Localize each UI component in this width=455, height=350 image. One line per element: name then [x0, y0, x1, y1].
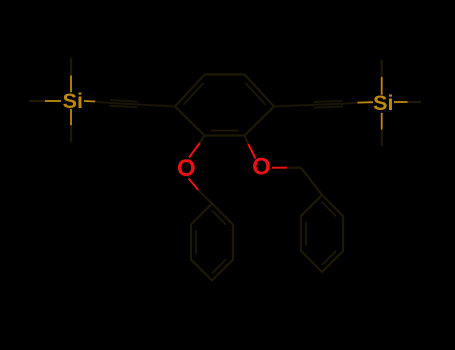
Si U2 right trimethylsilyl: [346, 60, 421, 146]
svg-text:Si: Si: [373, 91, 393, 115]
bond Si1-CH3 left: [45, 100, 61, 102]
svg-text:O: O: [252, 153, 271, 180]
phenyl ring left: [191, 204, 233, 281]
alkyne left triple bond C1#C2: [106, 100, 175, 107]
bond O2-CH2 right (red half): [272, 167, 287, 169]
O1 left oxygen: [177, 136, 212, 204]
bond O2-ring upper (red half): [248, 144, 255, 159]
Si U1 left trimethylsilyl: [29, 58, 106, 142]
bond Si2-CH3 right: [394, 101, 408, 103]
bond O1-ring upper (red half): [189, 143, 200, 158]
bond CH2-phenyl right: [301, 168, 322, 195]
bond Si2-CH3 up: [381, 77, 383, 95]
bond Si2-C1' left: [358, 101, 374, 103]
svg-text:O: O: [177, 155, 196, 182]
bond C2'-ring right: [274, 105, 310, 107]
svg-text:Si: Si: [63, 89, 83, 113]
bond C2-ring left: [141, 105, 175, 107]
phenyl ring right: [301, 195, 343, 272]
O2 right oxygen: [245, 136, 302, 181]
bond Si2-CH3 down: [381, 113, 383, 130]
bond Si1-CH3 down: [70, 109, 72, 125]
bond Si1-C1 right: [84, 100, 95, 103]
bond Si1-CH3 up: [70, 75, 72, 92]
bond O1-phenyl lower (red half): [189, 179, 199, 191]
benzene ring central: [175, 75, 274, 136]
alkyne right triple bond C1'#C2': [274, 101, 346, 108]
